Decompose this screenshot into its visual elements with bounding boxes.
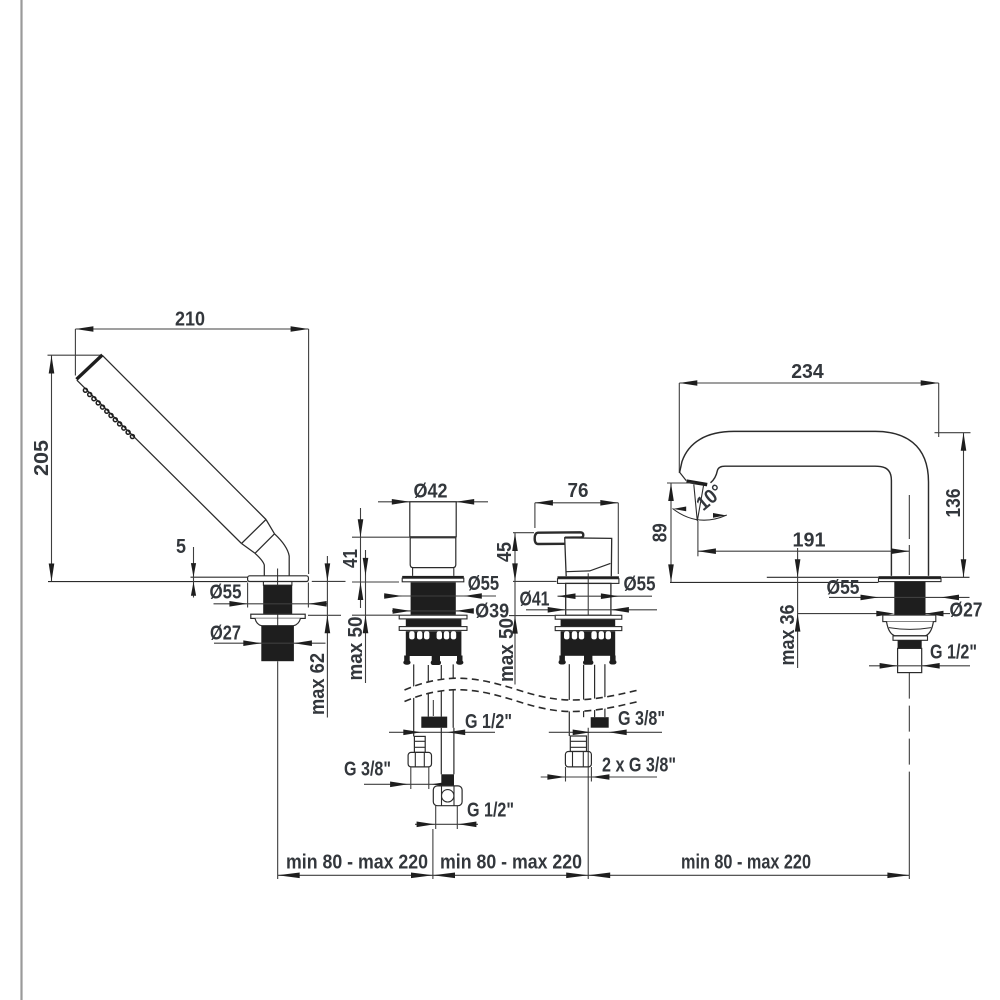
- svg-text:Ø42: Ø42: [414, 480, 448, 502]
- deck underside line left of shower flange: [48, 581, 247, 583]
- valve2 hose compression fitting: [570, 736, 586, 752]
- svg-text:G 1/2": G 1/2": [930, 642, 977, 664]
- valve1 central stud foot: [432, 656, 440, 662]
- hand shower dim diameter 55 line: [214, 603, 328, 605]
- valve1 dim diameter 42 line: [378, 501, 488, 503]
- valve2 left hose: [568, 664, 570, 736]
- hand shower dim max 62 extension flange underside: [312, 580, 346, 582]
- spout lock nut: [887, 622, 934, 636]
- valve1 dim 41 extension top: [352, 536, 410, 538]
- spout nose left edge: [680, 472, 687, 480]
- hand shower handle bend: [275, 534, 290, 576]
- valve2 body: [565, 538, 612, 576]
- hand shower body outline: [77, 355, 266, 543]
- valve2 mounting bracket: [561, 631, 616, 656]
- valve1 bracket legs: [404, 656, 410, 662]
- valve1 G 3/8 hex nut: [408, 752, 431, 767]
- valve2 central stud pipe: [583, 665, 585, 717]
- valve2 2 x G 3/8 dim line: [541, 776, 657, 778]
- hand shower dim 5 line: [193, 547, 195, 598]
- valve1 flange top edge: [402, 576, 464, 579]
- svg-text:G 3/8": G 3/8": [618, 708, 665, 730]
- hand shower lock washer: [251, 614, 305, 618]
- valve2 dim 76 extension right: [617, 503, 619, 574]
- svg-text:G 1/2": G 1/2": [465, 711, 512, 733]
- hand shower dim max 62 extension nut top: [308, 614, 341, 616]
- pipe break wave lower dashed: [405, 690, 639, 712]
- hand shower dim 205 extension top: [48, 354, 102, 356]
- spout angle 10 arc: [673, 509, 727, 521]
- valve1 dim diameter 39 line: [392, 610, 473, 612]
- valve1 G 3/8 dim extensions: [410, 767, 412, 789]
- valve2 dim diameter 41 line: [526, 609, 657, 611]
- hand shower dim 210 extension right: [308, 329, 310, 574]
- svg-text:Ø55: Ø55: [827, 577, 860, 599]
- svg-text:Ø55: Ø55: [624, 574, 656, 596]
- valve2 2 x G 3/8 dim extensions: [565, 767, 567, 782]
- valve2 cartridge body: [566, 583, 611, 615]
- spout centerline upper: [908, 495, 910, 575]
- svg-text:max 62: max 62: [307, 653, 329, 715]
- hand shower dim 210 line: [75, 328, 308, 330]
- valve1 G 1/2 lower dim line: [415, 823, 478, 825]
- valve1 washer lower: [399, 627, 467, 631]
- spout dim 191 line: [698, 550, 909, 552]
- valve1 hose compression fitting: [414, 736, 425, 752]
- valve1 washer upper: [399, 615, 467, 619]
- hand shower dim max 62 line: [326, 556, 328, 718]
- valve1 centerline short: [432, 700, 434, 716]
- hand shower dim diameter 27 line: [214, 642, 326, 644]
- valve2 washer lower: [555, 627, 622, 631]
- valve1 G 3/8 dim line: [364, 783, 452, 785]
- spout flange: [879, 579, 942, 582]
- valve1 G 1/2 lower dim extensions: [435, 806, 437, 829]
- valve2 spacer ring: [561, 620, 616, 627]
- hand shower shank upper: [263, 585, 292, 614]
- hand shower neck below flange: [263, 582, 292, 586]
- spout outline: [680, 431, 929, 576]
- valve1 left hose: [413, 664, 415, 736]
- svg-text:89: 89: [650, 523, 672, 542]
- valve2 dim 45 extension top: [513, 532, 534, 534]
- deck underside line at spout: [670, 581, 878, 583]
- hand shower centerline to spacing dim: [277, 661, 279, 879]
- valve2 dim 45 line: [514, 533, 516, 685]
- valve2 right hose: [604, 664, 606, 717]
- hand shower dim 205 line: [51, 356, 53, 582]
- spout dim max 36 line: [797, 548, 799, 668]
- valve1 pipe below connector: [440, 728, 442, 775]
- spout G 1/2 dim line: [869, 665, 970, 667]
- valve2 G 3/8 hex nut: [565, 752, 591, 767]
- valve1 dim 41 line: [360, 508, 362, 608]
- svg-text:min 80 - max 220: min 80 - max 220: [286, 852, 428, 874]
- valve1 dim max 50 extensions: [352, 581, 399, 583]
- spout dim diameter 55 line: [829, 596, 970, 598]
- svg-text:210: 210: [175, 309, 205, 331]
- valve1 dim max 50 line: [365, 550, 367, 683]
- svg-text:Ø55: Ø55: [468, 573, 500, 595]
- deck surface line at spout: [767, 576, 879, 578]
- spout dim 234 line: [679, 382, 938, 384]
- spout centerline lower: [908, 673, 910, 790]
- valve1 flange: [402, 578, 464, 582]
- spout thread collar: [898, 640, 922, 648]
- svg-text:Ø27: Ø27: [950, 600, 983, 622]
- valve1 mounting bracket: [406, 631, 462, 656]
- hand shower centerline upper: [277, 569, 279, 587]
- valve1 cap lower: [410, 538, 456, 568]
- valve1 G 1/2 connector: [421, 717, 447, 728]
- spout ring: [893, 636, 928, 640]
- valve1 neck: [413, 568, 454, 576]
- spout lock nut inner line: [889, 628, 931, 630]
- hand shower flange: [248, 576, 309, 582]
- svg-text:76: 76: [568, 480, 589, 502]
- svg-text:45: 45: [494, 542, 516, 562]
- valve2 dim 45 extension bottom: [513, 580, 557, 582]
- spout shank: [894, 582, 925, 616]
- spout dim 136 line: [963, 433, 965, 578]
- valve2 dim max 50 extension: [509, 615, 556, 617]
- svg-text:2 x G 3/8": 2 x G 3/8": [602, 755, 676, 777]
- svg-text:max 36: max 36: [777, 605, 799, 666]
- spout dim 234 extension right: [938, 383, 940, 437]
- spacing dim arrows: [278, 873, 300, 879]
- page edge line: [20, 0, 22, 1000]
- spout dim 89 extension top: [667, 482, 695, 484]
- spout washer: [883, 615, 936, 622]
- valve1 centerline to spacing dim: [432, 829, 434, 879]
- hand shower centerline through washer: [277, 614, 279, 625]
- spout dim 191 extension: [697, 521, 699, 556]
- hand shower connector ring: [242, 520, 275, 554]
- valve1 spacer ring: [406, 619, 462, 626]
- valve2 washer upper: [555, 615, 622, 619]
- spout flange top edge: [879, 576, 942, 579]
- valve2 dim 76 line: [535, 502, 618, 504]
- hand shower dim 210 extension left: [74, 329, 76, 376]
- svg-text:136: 136: [943, 489, 965, 518]
- valve1 right hose: [452, 664, 454, 727]
- spout dim diameter 27 line with max36 extension: [798, 613, 883, 615]
- svg-text:Ø55: Ø55: [210, 582, 242, 604]
- valve2 flange top edge: [558, 576, 619, 579]
- valve2 dim diameter 55 line: [558, 595, 653, 597]
- spout dim 136 extension top: [935, 432, 971, 434]
- valve2 centerline to spacing dim: [587, 728, 589, 879]
- valve1 G 1/2 dim line: [389, 731, 495, 733]
- svg-text:min 80 - max 220: min 80 - max 220: [681, 852, 811, 874]
- svg-text:205: 205: [31, 440, 53, 476]
- svg-text:234: 234: [791, 361, 824, 383]
- valve2 body facet line: [566, 563, 610, 571]
- valve1 central stud pipe: [427, 665, 429, 717]
- svg-text:max 50: max 50: [345, 617, 367, 681]
- hand shower shank lower: [261, 626, 294, 661]
- valve2 centerline: [587, 573, 589, 615]
- valve1 G 1/2 lower hex nut: [433, 786, 462, 806]
- spout threaded pipe: [898, 648, 922, 672]
- svg-text:Ø41: Ø41: [520, 589, 550, 611]
- valve2 bracket legs: [559, 656, 565, 662]
- hand shower dim diameter 55 extensions: [247, 583, 249, 608]
- valve1 cap upper: [410, 502, 456, 537]
- hand shower lock nut: [255, 618, 301, 625]
- hand shower head face: [77, 355, 103, 379]
- spout angle 10 vertex legs: [694, 485, 704, 522]
- valve2 dim 76 extension left: [534, 503, 536, 528]
- valve2 lever handle: [535, 532, 584, 544]
- svg-text:5: 5: [176, 536, 186, 558]
- svg-text:G 1/2": G 1/2": [467, 800, 514, 822]
- valve1 lower fitting: [441, 774, 454, 786]
- valve2 central stud foot: [584, 656, 592, 662]
- deck surface line left of shower flange: [191, 576, 248, 578]
- svg-text:41: 41: [340, 549, 362, 568]
- svg-text:min 80 - max 220: min 80 - max 220: [440, 852, 582, 874]
- valve1 dim diameter 55 line: [384, 595, 496, 597]
- pipe break wave upper dashed: [405, 678, 639, 700]
- valve1 body: [411, 582, 456, 614]
- valve2 flange: [558, 579, 619, 584]
- hand shower nozzles: [83, 388, 134, 438]
- spacing dim line: [278, 874, 910, 876]
- spout aerator face: [687, 481, 708, 484]
- svg-text:max 50: max 50: [496, 618, 518, 682]
- spout dim 89 line: [670, 483, 672, 582]
- valve2 G 3/8 dim line: [549, 731, 662, 733]
- svg-text:Ø27: Ø27: [210, 623, 241, 645]
- pipe break wave band: [405, 678, 639, 711]
- valve2 G 3/8 connector: [591, 717, 609, 728]
- spout dim 234 extension left: [678, 383, 680, 473]
- svg-text:G 3/8": G 3/8": [344, 759, 391, 781]
